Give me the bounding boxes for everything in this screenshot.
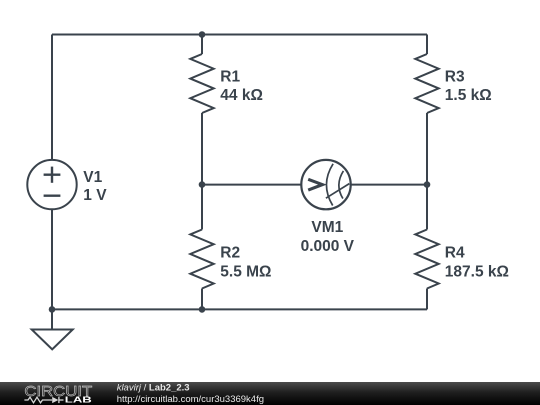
wire R3 bottom lead bbox=[426, 113, 428, 185]
wire ground stub bbox=[51, 309, 53, 329]
svg-text:1 V: 1 V bbox=[83, 187, 107, 204]
svg-text:5.5 MΩ: 5.5 MΩ bbox=[220, 263, 271, 280]
wire mid rail left of voltmeter bbox=[202, 184, 301, 186]
wire bottom rail bbox=[52, 308, 427, 310]
node junction mid right bbox=[424, 181, 431, 188]
label R3 value bbox=[445, 87, 492, 104]
label V1 value bbox=[83, 187, 107, 204]
svg-text:LAB: LAB bbox=[65, 395, 92, 405]
footer bar bbox=[0, 382, 540, 405]
svg-text:http://circuitlab.com/cur3u336: http://circuitlab.com/cur3u3369k4fg bbox=[117, 394, 264, 405]
label R3 name bbox=[445, 68, 465, 85]
wire R3 top lead bbox=[426, 35, 428, 55]
node junction top middle bbox=[199, 31, 206, 38]
wire R1 bottom lead to mid node bbox=[201, 113, 203, 185]
wire left column upper bbox=[51, 35, 53, 160]
ground bbox=[32, 330, 73, 350]
wire mid rail right of voltmeter bbox=[351, 184, 427, 186]
label R4 value bbox=[445, 263, 509, 280]
label R1 value bbox=[220, 87, 263, 104]
svg-text:0.000 V: 0.000 V bbox=[301, 238, 355, 255]
svg-text:VM1: VM1 bbox=[311, 219, 343, 236]
svg-text:1.5 kΩ: 1.5 kΩ bbox=[445, 87, 492, 104]
footer author/title text bbox=[117, 383, 264, 405]
svg-text:V1: V1 bbox=[83, 169, 102, 186]
wire top rail bbox=[52, 34, 427, 36]
voltage source V1 bbox=[27, 160, 76, 209]
CircuitLab logo bbox=[24, 384, 92, 405]
svg-text:R1: R1 bbox=[220, 68, 240, 85]
svg-text:R2: R2 bbox=[220, 244, 240, 261]
resistor R2 bbox=[190, 230, 213, 289]
svg-text:44 kΩ: 44 kΩ bbox=[220, 87, 263, 104]
label R2 value bbox=[220, 263, 271, 280]
wire R2 top lead bbox=[201, 185, 203, 230]
wire R2 bottom lead bbox=[201, 289, 203, 310]
wire R4 bottom lead bbox=[426, 289, 428, 310]
label VM1 name bbox=[311, 219, 343, 236]
svg-text:R3: R3 bbox=[445, 68, 465, 85]
node junction bottom middle bbox=[199, 306, 206, 313]
svg-text:187.5 kΩ: 187.5 kΩ bbox=[445, 263, 509, 280]
label VM1 value bbox=[301, 238, 355, 255]
wire left column lower bbox=[51, 209, 53, 309]
resistor R3 bbox=[415, 54, 438, 113]
node junction bottom left bbox=[49, 306, 56, 313]
label R1 name bbox=[220, 68, 240, 85]
label R4 name bbox=[445, 244, 465, 261]
resistor R4 bbox=[415, 230, 438, 289]
wire R4 top lead bbox=[426, 185, 428, 230]
wire R1 top lead bbox=[201, 35, 203, 55]
svg-text:klavirj / Lab2_2.3: klavirj / Lab2_2.3 bbox=[117, 383, 190, 394]
label R2 name bbox=[220, 244, 240, 261]
voltmeter VM1 bbox=[301, 160, 350, 209]
resistor R1 bbox=[190, 54, 213, 113]
node junction mid left bbox=[199, 181, 206, 188]
label V1 name bbox=[83, 169, 102, 186]
svg-text:R4: R4 bbox=[445, 244, 465, 261]
